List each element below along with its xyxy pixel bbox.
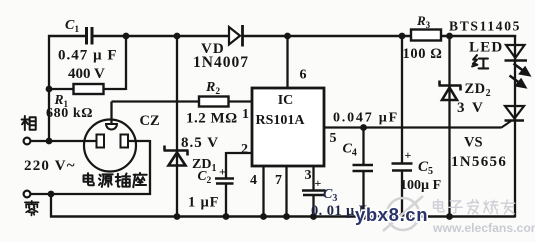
capacitor C5 plates bbox=[392, 162, 413, 164]
wire top rail R3 to right corner bbox=[441, 35, 516, 38]
label neutral bbox=[25, 201, 39, 216]
node junction ZD2 bottom bbox=[446, 213, 453, 220]
wire IC pin2 horizontal bbox=[226, 152, 252, 154]
capacitor C2 plates bbox=[215, 177, 234, 180]
wire socket right pin bbox=[128, 140, 150, 142]
wire IC pin6 bbox=[286, 36, 288, 88]
label phase bbox=[22, 116, 36, 130]
svg-text:1N5656: 1N5656 bbox=[451, 154, 507, 170]
watermark logo circle bbox=[383, 196, 423, 231]
resistor R3 body bbox=[411, 30, 441, 41]
zener ZD1 symbol bbox=[164, 149, 189, 152]
svg-text:1: 1 bbox=[242, 107, 249, 122]
capacitor C2 lower wire bbox=[225, 184, 227, 218]
node junction C5 bottom bbox=[399, 213, 406, 220]
wire earth sense horizontal bbox=[112, 100, 200, 102]
wire C4 upper bbox=[362, 128, 364, 166]
svg-text:VS: VS bbox=[464, 135, 483, 151]
svg-text:4: 4 bbox=[250, 173, 257, 188]
node junction C5 top bbox=[399, 33, 406, 40]
svg-text:C4: C4 bbox=[343, 142, 357, 159]
zener ZD2 symbol bbox=[439, 84, 462, 87]
wire socket earth riser bbox=[110, 102, 112, 125]
wire neutral horizontal bbox=[31, 193, 152, 195]
svg-text:2: 2 bbox=[241, 142, 248, 157]
wire IC pin3 upper bbox=[312, 166, 314, 190]
svg-text:3: 3 bbox=[305, 168, 312, 183]
svg-text:+: + bbox=[315, 176, 322, 190]
resistor R2 body bbox=[199, 97, 229, 107]
LED symbol bbox=[506, 45, 525, 58]
wire bottom rail bbox=[50, 215, 515, 218]
thyristor VS gate wire bbox=[502, 121, 512, 128]
svg-text:LED: LED bbox=[469, 40, 503, 56]
wire ZD2 upper bbox=[448, 36, 450, 217]
wire neutral drop bbox=[50, 194, 52, 218]
svg-text:CZ: CZ bbox=[140, 113, 160, 129]
svg-text:C1: C1 bbox=[65, 18, 79, 35]
svg-text:100µ F: 100µ F bbox=[400, 178, 441, 193]
resistor R1 body bbox=[74, 84, 104, 94]
svg-text:6: 6 bbox=[300, 68, 307, 83]
svg-text:0.047 µF: 0.047 µF bbox=[333, 111, 399, 126]
wire ZD1 riser upper bbox=[176, 35, 178, 217]
svg-text:3 V: 3 V bbox=[457, 100, 485, 116]
node junction pin7 bottom bbox=[283, 213, 290, 220]
svg-text:IC: IC bbox=[278, 93, 294, 108]
capacitor C5 lower wire bbox=[401, 171, 403, 218]
wire socket right drop bbox=[149, 140, 151, 195]
wire left vertical (phase riser) bbox=[48, 35, 50, 142]
svg-text:ZD2: ZD2 bbox=[465, 81, 492, 99]
LED arrows bbox=[510, 64, 530, 88]
svg-text:+: + bbox=[405, 148, 412, 162]
wire C5 upper bbox=[401, 36, 403, 164]
capacitor C4 plates bbox=[353, 164, 374, 167]
svg-text:7: 7 bbox=[275, 173, 282, 188]
LED color label bbox=[472, 55, 488, 68]
node junction R1 branch left bbox=[46, 86, 53, 93]
thyristor VS symbol bbox=[505, 106, 524, 119]
node junction C3 bottom bbox=[310, 213, 317, 220]
label socket name bbox=[84, 173, 94, 185]
node junction ZD1 bottom bbox=[174, 213, 181, 220]
socket CZ right slot bbox=[121, 135, 129, 148]
op-amp IC RS101A box bbox=[252, 88, 324, 166]
socket CZ earth pin bbox=[106, 124, 117, 130]
svg-text:0.47 µ F: 0.47 µ F bbox=[58, 48, 118, 64]
wire C1-R1 right vertical bbox=[125, 35, 127, 90]
node junction phase riser bbox=[46, 138, 53, 145]
diode VD symbol bbox=[229, 27, 240, 45]
wire R2 to IC pin1 bbox=[229, 100, 253, 102]
node junction ZD1 riser top bbox=[174, 33, 181, 40]
svg-text:C3: C3 bbox=[323, 187, 337, 204]
socket CZ circle bbox=[84, 120, 136, 172]
node junction pin6 top bbox=[284, 33, 291, 40]
capacitor C3 plates bbox=[302, 189, 326, 191]
svg-text:R2: R2 bbox=[205, 80, 220, 97]
node junction C4 top bbox=[360, 124, 367, 131]
svg-text:R3: R3 bbox=[416, 13, 431, 30]
wire R1 branch bbox=[49, 88, 126, 90]
svg-text:1 µF: 1 µF bbox=[188, 195, 219, 211]
node junction C4 bottom bbox=[360, 213, 367, 220]
node junction ZD2 top bbox=[446, 33, 453, 40]
terminal neutral circle bbox=[24, 191, 31, 198]
wire C2 upper bbox=[225, 152, 227, 178]
svg-text:220 V~: 220 V~ bbox=[24, 158, 76, 174]
wire IC pin7 bbox=[285, 166, 287, 217]
wire IC pin4 bbox=[262, 166, 264, 217]
svg-text:ybx8.cn: ybx8.cn bbox=[355, 204, 428, 225]
watermark elecfans cjk bbox=[434, 200, 444, 212]
wire right rail top bbox=[514, 35, 516, 218]
svg-text:1.2 MΩ: 1.2 MΩ bbox=[186, 111, 238, 127]
svg-text:5: 5 bbox=[330, 131, 337, 146]
wire IC pin5 gate run bbox=[324, 126, 502, 128]
node junction pin4 bottom bbox=[260, 213, 267, 220]
svg-text:+: + bbox=[219, 165, 226, 179]
wire phase to socket bbox=[31, 140, 98, 142]
svg-text:C5: C5 bbox=[418, 159, 433, 177]
svg-text:680 kΩ: 680 kΩ bbox=[46, 106, 93, 121]
svg-text:BTS11405: BTS11405 bbox=[449, 19, 521, 34]
svg-text:400 V: 400 V bbox=[68, 66, 105, 82]
svg-text:1N4007: 1N4007 bbox=[193, 54, 249, 71]
svg-text:100 Ω: 100 Ω bbox=[403, 46, 443, 62]
node junction neutral drop bbox=[48, 191, 55, 198]
svg-text:RS101A: RS101A bbox=[255, 113, 305, 128]
wire top rail C1 to VD bbox=[92, 35, 230, 38]
node junction C2 bottom bbox=[223, 213, 230, 220]
wire top rail VD to R3 area bbox=[244, 35, 412, 38]
terminal phase circle bbox=[24, 138, 31, 145]
socket CZ left slot bbox=[97, 135, 105, 148]
svg-text:8.5 V: 8.5 V bbox=[181, 135, 219, 151]
capacitor C4 lower wire bbox=[362, 171, 364, 217]
capacitor C3 lower wire bbox=[312, 195, 314, 217]
capacitor C1 plates bbox=[85, 27, 88, 45]
svg-text:www.elecfans.com: www.elecfans.com bbox=[432, 221, 535, 235]
wire top rail left segment (phase node to C1) bbox=[48, 35, 87, 38]
node junction top of R1 branch bbox=[123, 33, 130, 40]
